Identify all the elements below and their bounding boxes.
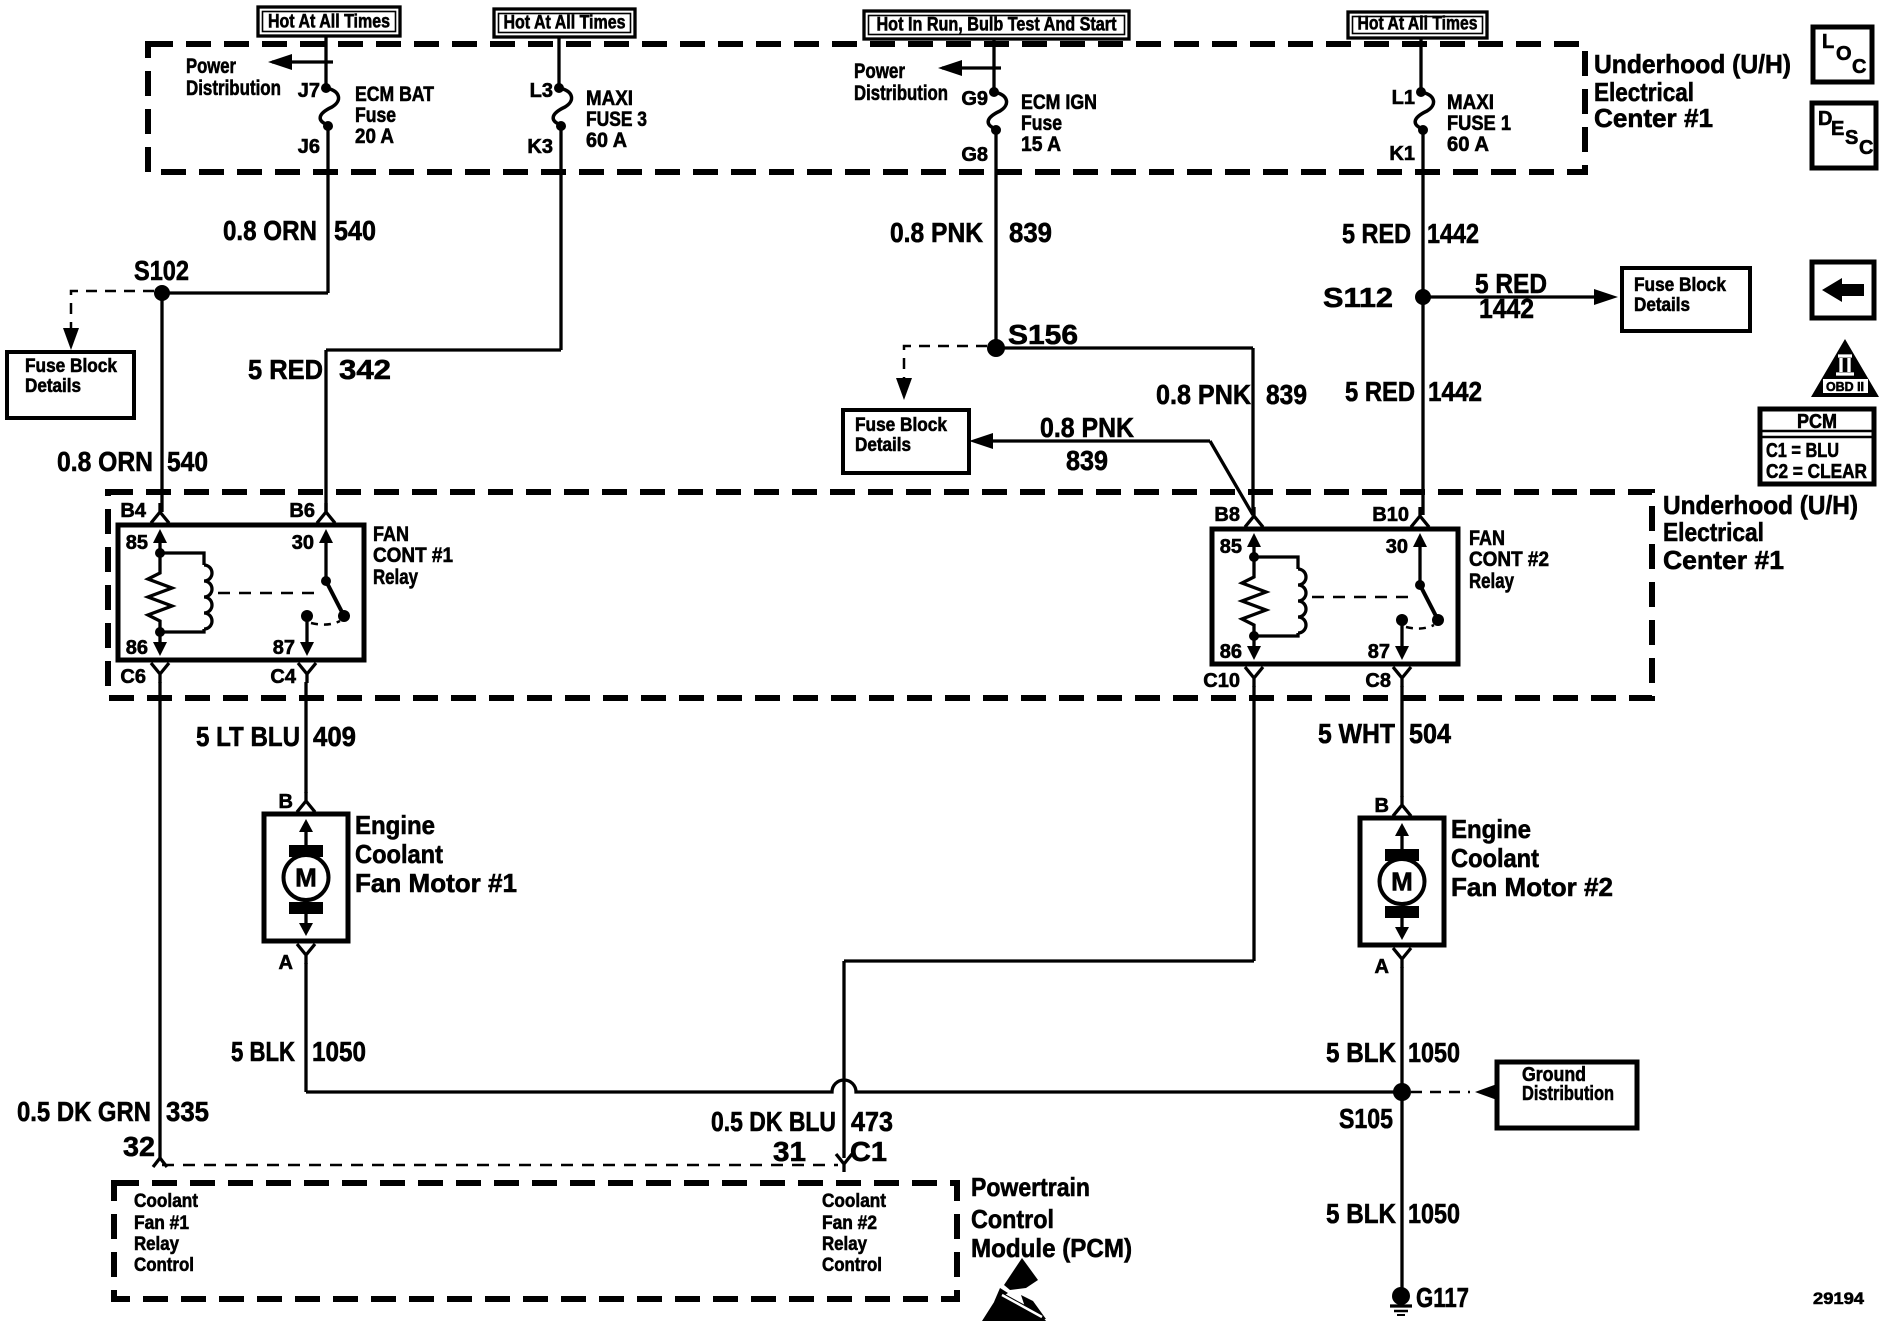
svg-text:Coolant: Coolant	[134, 1191, 199, 1212]
svg-text:Fuse Block: Fuse Block	[25, 356, 117, 377]
svg-text:5 RED: 5 RED	[1345, 376, 1415, 407]
PCM connector C1 boundary (thin dashed)	[162, 1164, 838, 1167]
svg-text:Fan Motor #2: Fan Motor #2	[1451, 872, 1613, 902]
svg-text:Power: Power	[854, 60, 905, 83]
wire 0.8 PNK 839 branch into Fuse Block Details with left arrow, diagonal from relay B8	[969, 433, 1253, 515]
svg-text:Control: Control	[971, 1204, 1054, 1234]
svg-text:G8: G8	[961, 144, 988, 166]
svg-text:C8: C8	[1365, 670, 1391, 692]
svg-text:Distribution: Distribution	[186, 77, 281, 100]
svg-text:S156: S156	[1008, 319, 1078, 350]
svg-text:1050: 1050	[312, 1036, 366, 1067]
svg-text:0.8 ORN: 0.8 ORN	[57, 446, 153, 477]
svg-text:Distribution: Distribution	[1522, 1083, 1614, 1105]
svg-text:0.8 PNK: 0.8 PNK	[1156, 379, 1251, 410]
svg-text:540: 540	[334, 215, 376, 246]
connector A (motor #1)	[297, 944, 315, 964]
svg-text:B4: B4	[120, 500, 146, 522]
svg-text:1442: 1442	[1479, 293, 1534, 324]
Powertrain Control Module (PCM) boundary (dashed box)	[114, 1183, 957, 1299]
svg-text:0.8 PNK: 0.8 PNK	[1040, 412, 1134, 443]
relay FAN CONT #2 (85/30/86/87)	[1212, 529, 1458, 664]
svg-text:Relay: Relay	[1469, 570, 1514, 593]
svg-text:L: L	[1822, 31, 1834, 53]
svg-text:0.8 ORN: 0.8 ORN	[223, 215, 317, 246]
svg-text:Details: Details	[1634, 295, 1690, 316]
svg-text:409: 409	[313, 721, 356, 752]
svg-text:Fuse Block: Fuse Block	[855, 415, 947, 436]
wire 5 RED 1442: fuse K1 down through S112 to relay B10	[1421, 172, 1424, 515]
svg-text:C2 = CLEAR: C2 = CLEAR	[1766, 461, 1867, 483]
svg-text:86: 86	[1220, 641, 1242, 663]
svg-text:Coolant: Coolant	[822, 1191, 887, 1212]
dashed reference wire S102 to Fuse Block Details	[63, 291, 154, 350]
svg-text:Hot At All Times: Hot At All Times	[504, 13, 626, 34]
svg-text:Fuse: Fuse	[1021, 112, 1062, 135]
svg-text:5 BLK: 5 BLK	[1326, 1037, 1396, 1068]
svg-text:Details: Details	[855, 435, 911, 456]
svg-text:MAXI: MAXI	[586, 87, 633, 110]
dashed reference wire S156 to Fuse Block Details (middle)	[896, 346, 987, 400]
svg-text:30: 30	[1386, 536, 1408, 558]
svg-text:L1: L1	[1392, 87, 1415, 109]
wire 0.8 ORN 540: fuse J6 down, left to S102	[162, 172, 328, 293]
wire 5 LT BLU 409: relay C4 down to motor #1 pin B	[304, 682, 307, 793]
svg-text:Coolant: Coolant	[1451, 843, 1539, 873]
svg-text:B: B	[1375, 795, 1389, 817]
svg-text:ECM BAT: ECM BAT	[355, 83, 434, 106]
svg-text:M: M	[295, 863, 317, 893]
header label "Hot At All Times" (ECM BAT feed)	[258, 7, 400, 36]
wire 5 BLK 1050: motor #2 pin A down to S105	[1400, 967, 1403, 1092]
wire/arrow to Power Distribution (left)	[268, 54, 333, 70]
wire 5 RED 342: fuse K3 down, left, down to relay B6	[326, 172, 561, 512]
svg-text:0.8 PNK: 0.8 PNK	[890, 217, 983, 248]
svg-text:5 LT BLU: 5 LT BLU	[196, 721, 300, 752]
svg-text:31: 31	[773, 1136, 806, 1167]
svg-text:ECM IGN: ECM IGN	[1021, 91, 1097, 114]
svg-text:B6: B6	[289, 500, 315, 522]
svg-text:Module (PCM): Module (PCM)	[971, 1233, 1132, 1263]
connector C4 (out of relay 1)	[298, 663, 316, 683]
icon DESC box	[1812, 103, 1876, 168]
svg-text:1442: 1442	[1427, 218, 1479, 249]
svg-text:85: 85	[1220, 536, 1242, 558]
wire 5 BLK 1050: motor #1 pin A down and right to S105 (with hop over DK BLU)	[306, 963, 1402, 1092]
svg-text:G9: G9	[961, 88, 988, 110]
svg-text:Fuse Block: Fuse Block	[1634, 275, 1726, 296]
motor Engine Coolant Fan Motor #1 (M)	[264, 814, 348, 941]
icon LOC box	[1813, 27, 1872, 82]
svg-text:Engine: Engine	[355, 810, 435, 840]
svg-text:MAXI: MAXI	[1447, 91, 1494, 114]
svg-text:O: O	[1836, 43, 1852, 65]
fuse MAXI FUSE 3 60 A (pins L3/K3)	[527, 37, 647, 172]
fuse ECM IGN 15 A (pins G9/G8)	[961, 39, 1097, 172]
connector pin 32 into PCM (C1)	[153, 1158, 167, 1167]
svg-text:Hot At All Times: Hot At All Times	[1358, 14, 1478, 35]
node S156 (splice)	[987, 339, 1005, 357]
svg-text:B10: B10	[1372, 504, 1409, 526]
dashed reference wire S105 to Ground Distribution	[1411, 1084, 1497, 1100]
svg-text:335: 335	[166, 1096, 209, 1127]
wire 5 WHT 504: relay C8 down to motor #2 pin B	[1400, 686, 1403, 797]
svg-text:Fan #2: Fan #2	[822, 1213, 877, 1234]
svg-text:5 BLK: 5 BLK	[231, 1036, 295, 1067]
svg-text:87: 87	[1368, 641, 1390, 663]
svg-text:5 RED: 5 RED	[1342, 218, 1411, 249]
svg-text:5 WHT: 5 WHT	[1318, 718, 1395, 749]
wire S102 down (0.8 ORN 540 to relay B4)	[160, 293, 163, 512]
connector B (motor #1)	[297, 792, 315, 812]
icon OBD II triangle	[1811, 339, 1879, 397]
svg-text:60 A: 60 A	[1447, 133, 1489, 156]
svg-text:Relay: Relay	[822, 1234, 867, 1255]
svg-text:Fan #1: Fan #1	[134, 1213, 189, 1234]
reference box Fuse Block Details (middle)	[843, 410, 969, 473]
svg-text:FUSE 3: FUSE 3	[586, 108, 647, 131]
svg-text:87: 87	[273, 637, 295, 659]
connector pin 31 into PCM (C1)	[836, 1154, 852, 1172]
svg-text:Underhood (U/H): Underhood (U/H)	[1594, 49, 1791, 79]
ground G117	[1390, 1287, 1412, 1315]
header label "Hot At All Times" (MAXI FUSE 1 feed)	[1348, 12, 1487, 38]
svg-text:504: 504	[1409, 718, 1451, 749]
svg-text:Powertrain: Powertrain	[971, 1172, 1090, 1202]
svg-text:29194: 29194	[1813, 1289, 1865, 1308]
svg-text:FAN: FAN	[1469, 527, 1505, 550]
svg-text:Relay: Relay	[373, 566, 418, 589]
svg-text:B8: B8	[1214, 504, 1240, 526]
svg-text:C6: C6	[120, 666, 146, 688]
svg-text:C1: C1	[850, 1136, 887, 1167]
svg-text:5 RED: 5 RED	[248, 354, 323, 385]
svg-text:15 A: 15 A	[1021, 133, 1061, 156]
svg-text:Engine: Engine	[1451, 814, 1531, 844]
svg-text:Center #1: Center #1	[1663, 545, 1784, 575]
motor Engine Coolant Fan Motor #2 (M)	[1360, 818, 1444, 945]
svg-text:Power: Power	[186, 55, 236, 78]
svg-text:20 A: 20 A	[355, 125, 394, 148]
svg-text:473: 473	[851, 1106, 893, 1137]
connector C6 (out of relay 1)	[151, 663, 169, 683]
svg-text:85: 85	[126, 532, 148, 554]
svg-text:K1: K1	[1389, 143, 1415, 165]
svg-text:839: 839	[1009, 217, 1052, 248]
reference box Ground Distribution	[1497, 1062, 1637, 1128]
connector B6 (into relay 1)	[317, 503, 335, 523]
wire 0.8 PNK 839: S156 right and down to relay B8	[996, 348, 1253, 515]
svg-text:J7: J7	[298, 80, 320, 102]
svg-text:OBD II: OBD II	[1826, 379, 1864, 394]
svg-text:Relay: Relay	[134, 1234, 179, 1255]
wire 5 BLK 1050: S105 down to G117	[1400, 1092, 1403, 1290]
svg-text:60 A: 60 A	[586, 129, 627, 152]
svg-text:Electrical: Electrical	[1663, 517, 1764, 547]
svg-text:M: M	[1391, 867, 1413, 897]
svg-text:1442: 1442	[1428, 376, 1482, 407]
svg-text:30: 30	[292, 532, 314, 554]
svg-text:Fuse: Fuse	[355, 104, 396, 127]
svg-text:Details: Details	[25, 376, 81, 397]
ESD sensitivity symbol	[982, 1258, 1046, 1321]
svg-text:L3: L3	[530, 80, 553, 102]
svg-text:540: 540	[167, 446, 208, 477]
svg-text:5 BLK: 5 BLK	[1326, 1198, 1396, 1229]
connector C8 (out of relay 2)	[1393, 667, 1411, 687]
svg-text:Underhood (U/H): Underhood (U/H)	[1663, 490, 1858, 520]
svg-text:32: 32	[123, 1131, 155, 1162]
svg-text:J6: J6	[298, 136, 320, 158]
svg-text:E: E	[1831, 118, 1844, 140]
svg-text:A: A	[279, 952, 293, 974]
svg-text:S105: S105	[1339, 1103, 1393, 1134]
reference box Fuse Block Details (left)	[7, 352, 134, 418]
connector B4 (into relay 1)	[151, 503, 169, 523]
svg-text:Fan Motor #1: Fan Motor #1	[355, 868, 517, 898]
svg-text:B: B	[279, 791, 293, 813]
relay FAN CONT #1 (85/30/86/87)	[118, 525, 364, 660]
node S112 (splice)	[1415, 289, 1431, 305]
svg-text:K3: K3	[527, 136, 553, 158]
svg-text:G117: G117	[1416, 1282, 1469, 1313]
wire 0.5 DK BLU 473: relay C10 down, left, hop, down to PCM pin 31	[844, 686, 1254, 1158]
connector C10 (out of relay 2)	[1245, 667, 1263, 687]
svg-text:C: C	[1852, 56, 1866, 78]
icon back-arrow box	[1812, 262, 1874, 318]
svg-text:Coolant: Coolant	[355, 839, 443, 869]
svg-text:CONT #1: CONT #1	[373, 544, 453, 567]
wire 0.8 PNK 839: fuse G8 down to S156	[994, 172, 997, 348]
Underhood (U/H) Electrical Center #1 boundary (middle dashed box)	[108, 492, 1652, 698]
connector A (motor #2)	[1393, 948, 1411, 968]
svg-text:FUSE 1: FUSE 1	[1447, 112, 1511, 135]
svg-text:CONT #2: CONT #2	[1469, 548, 1549, 571]
fuse ECM BAT 20 A (pins J7/J6)	[298, 36, 434, 172]
header label "Hot At All Times" (MAXI FUSE 3 feed)	[494, 9, 635, 37]
svg-text:86: 86	[126, 637, 148, 659]
svg-text:C1 = BLU: C1 = BLU	[1766, 440, 1839, 462]
svg-text:A: A	[1375, 956, 1389, 978]
svg-text:Distribution: Distribution	[854, 82, 948, 105]
svg-text:Hot In Run, Bulb Test And Star: Hot In Run, Bulb Test And Start	[877, 15, 1118, 36]
Underhood (U/H) Electrical Center #1 boundary (top dashed box)	[148, 44, 1585, 172]
svg-text:0.5 DK BLU: 0.5 DK BLU	[711, 1106, 836, 1137]
svg-text:C: C	[1859, 137, 1873, 159]
svg-text:342: 342	[339, 354, 391, 385]
svg-text:C10: C10	[1203, 670, 1240, 692]
PCM connector legend table	[1760, 409, 1874, 484]
wire/arrow to Power Distribution (right)	[938, 60, 1001, 76]
svg-text:FAN: FAN	[373, 523, 409, 546]
connector B8 (into relay 2)	[1245, 507, 1263, 527]
svg-text:C4: C4	[270, 666, 296, 688]
connector B10 (into relay 2)	[1411, 507, 1429, 527]
svg-text:1050: 1050	[1408, 1198, 1460, 1229]
svg-text:Center #1: Center #1	[1594, 103, 1713, 133]
wire 5 RED 1442 branch: S112 right arrow to Fuse Block Details (right)	[1423, 289, 1618, 305]
svg-text:839: 839	[1066, 445, 1108, 476]
svg-text:S: S	[1845, 127, 1858, 149]
svg-text:PCM: PCM	[1797, 411, 1837, 433]
fuse MAXI FUSE 1 60 A (pins L1/K1)	[1389, 38, 1511, 172]
svg-text:1050: 1050	[1408, 1037, 1460, 1068]
header label "Hot In Run, Bulb Test And Start"	[864, 11, 1129, 39]
reference box Fuse Block Details (right)	[1622, 268, 1750, 331]
wire 0.5 DK GRN 335: relay C6 down to PCM pin 32	[158, 682, 161, 1160]
svg-text:S102: S102	[134, 255, 189, 286]
node S102 (splice)	[154, 285, 170, 301]
svg-text:Control: Control	[822, 1255, 882, 1276]
connector B (motor #2)	[1393, 796, 1411, 816]
node S105 (splice)	[1393, 1083, 1411, 1101]
svg-text:Hot At All Times: Hot At All Times	[268, 12, 390, 33]
svg-text:Control: Control	[134, 1255, 194, 1276]
svg-text:0.5 DK GRN: 0.5 DK GRN	[17, 1096, 151, 1127]
svg-text:839: 839	[1266, 379, 1307, 410]
svg-text:S112: S112	[1323, 282, 1393, 313]
